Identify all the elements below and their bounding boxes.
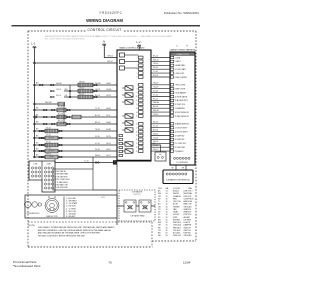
connector pin 1 <box>170 56 173 58</box>
svg-text:16-TN: 16-TN <box>106 136 111 138</box>
board pin B5 <box>119 150 123 152</box>
svg-text:10: 10 <box>136 96 138 98</box>
wire tie vertical x64 <box>63 103 65 124</box>
svg-text:8 REF LIGHT: 8 REF LIGHT <box>175 89 187 91</box>
svg-text:20: 20 <box>136 139 138 141</box>
svg-text:Publication No. 5995421891: Publication No. 5995421891 <box>164 11 200 15</box>
board pin J6 <box>139 76 144 79</box>
svg-text:20 DISP BD: 20 DISP BD <box>175 139 185 141</box>
connector pair mid row 1 <box>50 84 52 86</box>
wire board to connector GN-16 <box>151 84 170 86</box>
connector pair after row 3 <box>94 96 96 98</box>
divider dashed vertical right <box>151 222 153 247</box>
svg-text:5 YL FAN HIGH: 5 YL FAN HIGH <box>55 181 68 184</box>
wire bottom bus <box>93 189 117 191</box>
svg-text:RD-14: RD-14 <box>153 122 158 124</box>
svg-text:ICE/WATER DISPENSER BD: ICE/WATER DISPENSER BD <box>166 179 190 182</box>
board relay RL8 <box>125 149 133 153</box>
svg-text:P1: P1 <box>186 45 188 47</box>
connector pair mid row 3 <box>50 96 52 98</box>
svg-text:BLACK: BLACK <box>173 190 180 193</box>
svg-text:9 ICE MAKER: 9 ICE MAKER <box>175 91 187 94</box>
svg-text:GY-16: GY-16 <box>46 135 51 137</box>
board relay RL1 <box>125 86 133 90</box>
wire row y104 <box>34 103 64 105</box>
svg-text:COMPRESSOR: COMPRESSOR <box>27 213 41 215</box>
wire L-2 drop to board <box>138 46 140 50</box>
control circuit dashed border top <box>28 30 196 32</box>
svg-text:12: 12 <box>136 104 138 106</box>
svg-text:WH-BK: WH-BK <box>95 83 101 85</box>
board pin J19 <box>139 134 144 137</box>
wire row y157 <box>34 156 117 158</box>
wire board to connector WH-14 <box>151 60 170 62</box>
svg-text:RD-16: RD-16 <box>56 95 61 97</box>
svg-text:15 REF SENSOR: 15 REF SENSOR <box>175 116 190 118</box>
connector pair row 11 <box>39 156 41 158</box>
svg-text:WH-16: WH-16 <box>95 155 100 157</box>
component switch row 117 <box>72 115 81 119</box>
svg-text:DISCONNECT POWER BEFORE SERVIC: DISCONNECT POWER BEFORE SERVICING <box>96 36 138 38</box>
wire connector to display WH <box>185 165 187 170</box>
connector pair after row 2 <box>94 90 96 92</box>
svg-text:14 FRZ SENSOR: 14 FRZ SENSOR <box>175 112 190 114</box>
svg-text:NOTE:: NOTE: <box>29 225 36 227</box>
connector pair after row 9 <box>59 144 61 146</box>
connector plug L-1 <box>33 47 34 48</box>
terminal pin ice feed <box>113 161 117 165</box>
junction L-1 bus <box>34 62 36 64</box>
wire board to connector VT-16 <box>151 96 170 98</box>
junction L-1 row 4 <box>34 109 36 111</box>
connector plug N <box>103 44 104 45</box>
svg-text:16-GY: 16-GY <box>106 143 112 145</box>
ice maker motor M2 <box>139 200 151 212</box>
connector pin 23 <box>170 150 173 152</box>
svg-text:BK-16: BK-16 <box>153 106 158 108</box>
control circuit dashed border step <box>152 240 196 242</box>
svg-text:BU-16: BU-16 <box>58 114 63 116</box>
svg-text:CABINET WIRING HARNESS: CABINET WIRING HARNESS <box>170 48 196 51</box>
connector pair ice feed <box>95 162 97 164</box>
connector pair after row 8 <box>59 137 61 139</box>
board pin J23 <box>139 150 144 153</box>
svg-text:23 SHIELD: 23 SHIELD <box>175 151 185 153</box>
board pin J3 <box>139 64 144 67</box>
component ICE SW <box>45 129 58 133</box>
svg-text:RD-16: RD-16 <box>79 94 84 96</box>
svg-text:OR-16: OR-16 <box>79 88 84 90</box>
svg-text:6 DEF THERM: 6 DEF THERM <box>175 77 187 79</box>
board pin P8 <box>117 137 122 140</box>
board pin J18 <box>139 130 144 133</box>
svg-text:VT-16: VT-16 <box>95 143 100 145</box>
board pin B1 <box>119 134 123 136</box>
connector pin 4 <box>170 68 173 70</box>
relay K2 <box>120 60 125 64</box>
connector pair mid row 2 <box>50 90 52 92</box>
wire row y117 <box>34 116 117 118</box>
connector pin 17 <box>170 127 173 129</box>
connector pin 16 <box>170 123 173 125</box>
svg-text:WH-BK: WH-BK <box>56 83 62 85</box>
svg-text:21 COMP RLY: 21 COMP RLY <box>175 143 188 145</box>
svg-text:OR-16: OR-16 <box>56 89 61 91</box>
connector pair row 1 <box>39 84 41 86</box>
svg-text:11 AUGER MTR: 11 AUGER MTR <box>175 99 189 102</box>
svg-text:1 LINE: 1 LINE <box>175 57 181 59</box>
svg-text:10 WTR VALVE: 10 WTR VALVE <box>175 95 188 98</box>
wire board to connector BK-14 <box>151 57 170 59</box>
wire board to connector CN9 <box>151 145 161 152</box>
svg-text:WH-16: WH-16 <box>153 110 159 112</box>
svg-text:DISCONNECT POWER BEFORE SERVIC: DISCONNECT POWER BEFORE SERVICING UNIT. … <box>38 226 115 229</box>
board relay RL3 <box>125 100 133 104</box>
board pin P3 <box>117 96 122 99</box>
component LAMP <box>45 155 58 159</box>
wire line bus L-1 <box>34 62 117 64</box>
connector pin 2 <box>170 60 173 62</box>
connector pin 20 <box>170 138 173 140</box>
wire riser terminal board <box>54 159 56 163</box>
svg-text:MAIN CONTROL BOARD: MAIN CONTROL BOARD <box>119 47 144 50</box>
svg-text:3 - OR START: 3 - OR START <box>66 202 78 205</box>
wire board to connector TN-16 <box>151 88 170 90</box>
svg-text:4 RD COMP RUN: 4 RD COMP RUN <box>55 179 70 181</box>
wire drop x93 <box>92 157 94 169</box>
svg-text:14: 14 <box>136 112 138 114</box>
svg-text:13 DAMPER: 13 DAMPER <box>175 107 186 110</box>
motor legend divider <box>63 197 65 218</box>
board pin J4 <box>139 68 144 71</box>
svg-text:ALL COMPONENTS SHOWN DE-ENERGI: ALL COMPONENTS SHOWN DE-ENERGIZED <box>45 38 86 41</box>
svg-text:FAN HIGH: FAN HIGH <box>184 200 193 203</box>
component LT SW <box>78 95 93 99</box>
control circuit dashed border right <box>195 31 197 241</box>
board pin B3 <box>119 142 123 144</box>
connector pair mid row 11 <box>41 156 43 158</box>
board relay RL2 <box>125 93 133 97</box>
board pin J21 <box>139 142 144 145</box>
wire board to connector YL-16 <box>151 72 170 74</box>
component DEF TH <box>57 108 66 112</box>
board pin J10 <box>139 95 144 98</box>
svg-text:CLR: CLR <box>158 188 162 190</box>
svg-text:12 DISP SOL: 12 DISP SOL <box>175 104 186 106</box>
svg-text:GRN-YEL: GRN-YEL <box>173 235 181 237</box>
svg-text:CONTROL CIRCUIT: CONTROL CIRCUIT <box>87 28 121 32</box>
wire row y85 <box>34 84 117 86</box>
svg-text:YL-16: YL-16 <box>84 160 89 162</box>
connector pair mid row 5 <box>51 116 53 118</box>
connector pin 13 <box>170 107 173 109</box>
svg-text:11/04: 11/04 <box>183 261 191 265</box>
wire row y145 <box>34 144 117 146</box>
svg-text:PK-16: PK-16 <box>46 148 51 150</box>
svg-text:TO DISPENSER: TO DISPENSER <box>176 162 189 164</box>
board pin J9 <box>139 91 144 94</box>
svg-text:ICE MAKER HEAD: ICE MAKER HEAD <box>130 215 145 218</box>
svg-text:7 GN GROUND: 7 GN GROUND <box>55 187 68 189</box>
board pin J22 <box>139 146 144 149</box>
connector pair after row 11 <box>59 156 61 158</box>
svg-text:L-2: L-2 <box>137 40 141 44</box>
wire row y131 <box>34 130 117 132</box>
svg-text:VT-16: VT-16 <box>153 94 158 96</box>
control circuit dashed border bottom-left <box>28 246 153 248</box>
svg-text:22 GROUND: 22 GROUND <box>175 147 186 149</box>
connector header band <box>171 53 195 56</box>
board pin J2 <box>139 60 144 63</box>
connector bottom plug circles <box>174 157 176 159</box>
svg-text:BU-14: BU-14 <box>153 130 158 132</box>
svg-text:N: N <box>103 40 105 44</box>
wire board to connector BU-14 <box>151 131 170 133</box>
wire board to connector BU-16 <box>151 76 170 78</box>
indicator lamp row 117 <box>35 116 37 118</box>
svg-text:OR-14: OR-14 <box>153 114 158 116</box>
svg-text:GY-16: GY-16 <box>95 136 100 138</box>
svg-text:8 - BR AUX: 8 - BR AUX <box>66 215 76 218</box>
board pin J17 <box>139 126 144 129</box>
svg-text:RD-16: RD-16 <box>95 95 100 97</box>
svg-text:BK-14: BK-14 <box>153 55 158 57</box>
divider dashed bottom-left <box>28 221 152 223</box>
connector pin 8 <box>170 88 173 90</box>
connector pin 14 <box>170 111 173 113</box>
svg-text:*Non-Illustrated Parts: *Non-Illustrated Parts <box>13 264 41 268</box>
svg-text:YL-16: YL-16 <box>153 71 158 73</box>
connector pair after row 4 <box>67 109 69 111</box>
board pin J5 <box>139 72 144 75</box>
svg-text:19: 19 <box>136 135 138 137</box>
svg-text:17 DOOR SW F: 17 DOOR SW F <box>175 128 189 130</box>
wire board to connector YL-14 <box>151 127 170 129</box>
svg-text:16-VT: 16-VT <box>106 155 111 157</box>
component HTR <box>57 115 66 119</box>
wire N to board pin 1 <box>104 45 117 57</box>
connector pin 7 <box>170 84 173 86</box>
svg-text:AND INSULATION RATING AS ORIGI: AND INSULATION RATING AS ORIGINAL WIRE. … <box>38 232 100 235</box>
relay K3 <box>120 66 125 70</box>
wire board to connector GY-14 <box>151 142 170 144</box>
header rule <box>12 25 201 26</box>
wire L-1 vertical rail <box>33 48 35 157</box>
svg-text:FAN MOTOR: FAN MOTOR <box>46 215 58 218</box>
wire board to connector WH-BK <box>151 103 170 105</box>
connector pair mid row 7 <box>41 130 43 132</box>
junction L-1 row 8 <box>34 137 36 139</box>
wire ice maker feed <box>117 205 155 207</box>
svg-text:WH-14: WH-14 <box>153 59 159 61</box>
junction L-1 row 7 <box>34 130 36 132</box>
svg-text:ORANGE: ORANGE <box>173 195 182 198</box>
control circuit dashed border left <box>27 31 29 247</box>
svg-text:4 COND FAN: 4 COND FAN <box>175 68 186 71</box>
board pin J11 <box>139 99 144 102</box>
connector pair mid row 4 <box>51 109 53 111</box>
junction tie 91 <box>69 90 71 92</box>
svg-text:GY-16: GY-16 <box>153 91 158 93</box>
svg-text:2 NEUT: 2 NEUT <box>175 61 182 63</box>
svg-text:PK-16: PK-16 <box>95 149 100 151</box>
wire tie vertical x70 <box>69 85 71 97</box>
wire board to connector PK-16 <box>151 99 170 101</box>
connector pin 12 <box>170 103 173 105</box>
label CONTROL CIRCUIT <box>86 27 123 32</box>
board pin P7 <box>117 130 122 133</box>
wire board to connector TN-14 <box>151 138 170 140</box>
connector pair row 6 <box>43 123 45 125</box>
wire board to connector WH-16 <box>151 111 170 113</box>
board pin J12 <box>139 103 144 106</box>
junction L-1 row 1 <box>34 84 36 86</box>
terminal board line contacts <box>31 167 33 169</box>
svg-text:5 DEF HTR: 5 DEF HTR <box>175 73 185 75</box>
connector pair mid row 10 <box>41 150 43 152</box>
board pin J16 <box>139 122 144 125</box>
board pin J1 <box>139 56 144 59</box>
svg-text:2 WH NEUTRAL: 2 WH NEUTRAL <box>55 173 68 176</box>
svg-text:BR-16: BR-16 <box>58 121 63 123</box>
junction L-1 row 9 <box>34 144 36 146</box>
connector pin 19 <box>170 134 173 136</box>
svg-text:17: 17 <box>136 127 138 129</box>
board pin P11 <box>117 156 122 159</box>
board pin J14 <box>139 111 144 114</box>
component AUGER <box>45 149 58 153</box>
board pin J15 <box>139 115 144 118</box>
svg-text:SEE WIRE COLOR CODE CHART: SEE WIRE COLOR CODE CHART <box>141 35 173 38</box>
svg-text:16-OR: 16-OR <box>106 95 112 97</box>
svg-text:16-BR: 16-BR <box>106 129 112 131</box>
svg-text:21: 21 <box>136 143 138 145</box>
ice maker mold heater H1 <box>124 200 136 212</box>
connector pin 5 <box>170 72 173 74</box>
condenser fan motor M1 <box>45 199 59 213</box>
svg-text:PK-16: PK-16 <box>153 98 158 100</box>
component TIMER <box>57 122 66 126</box>
connector pair after row 7 <box>59 130 61 132</box>
svg-text:16-YL: 16-YL <box>106 115 111 117</box>
svg-text:16-BU: 16-BU <box>106 122 112 124</box>
wire board to connector GN-14 <box>151 135 170 137</box>
svg-text:CONNECTOR P1: CONNECTOR P1 <box>176 54 189 56</box>
svg-text:16: 16 <box>136 124 138 126</box>
board pin P10 <box>117 150 122 153</box>
connector pin 10 <box>170 95 173 97</box>
svg-text:70: 70 <box>108 261 112 265</box>
junction L-1 row y104 <box>34 103 36 105</box>
connector pair mid row 9 <box>41 144 43 146</box>
board pin B4 <box>119 146 123 148</box>
connector pin 6 <box>170 76 173 78</box>
connector pair after row 6 <box>67 123 69 125</box>
svg-text:FAN LOW: FAN LOW <box>184 203 192 206</box>
svg-text:GROUND: GROUND <box>184 235 193 237</box>
connector pair after row 1 <box>94 84 96 86</box>
svg-text:13: 13 <box>136 108 138 110</box>
connector pair row 9 <box>39 144 41 146</box>
wire drop x117 <box>116 164 118 225</box>
board pin P5 <box>117 116 122 119</box>
svg-text:AUGER: AUGER <box>184 216 191 219</box>
board pin B2 <box>119 138 123 140</box>
svg-text:19 DISP BD: 19 DISP BD <box>175 135 185 137</box>
connector pin 21 <box>170 142 173 144</box>
svg-text:WH-BK: WH-BK <box>79 82 85 84</box>
svg-text:DAMPER: DAMPER <box>184 224 192 227</box>
board pin J13 <box>139 107 144 110</box>
connector CN9 <box>155 152 166 161</box>
svg-text:J1: J1 <box>176 45 178 47</box>
connector pair mid row 8 <box>41 137 43 139</box>
svg-text:GN-16: GN-16 <box>153 83 158 85</box>
connector pin 15 <box>170 115 173 117</box>
component DISP <box>45 143 58 147</box>
terminal board load contacts <box>44 167 46 169</box>
connector pair row 7 <box>39 130 41 132</box>
svg-text:TN-16: TN-16 <box>46 128 51 130</box>
board relay RL6 <box>125 128 133 132</box>
svg-text:RD-16: RD-16 <box>153 67 158 69</box>
component jumper y104 <box>58 102 65 106</box>
connector pair after row 5 <box>67 116 69 118</box>
svg-text:22: 22 <box>136 147 138 149</box>
junction tie 97 <box>69 96 71 98</box>
board pin P2 <box>117 90 122 93</box>
board pin P1 <box>117 84 122 87</box>
wire board to connector GN-YL <box>151 150 170 152</box>
svg-text:GN-14: GN-14 <box>153 133 158 135</box>
svg-text:OR-16: OR-16 <box>95 89 100 91</box>
connector pin 11 <box>170 99 173 101</box>
connector pair after row 10 <box>59 150 61 152</box>
svg-text:GN-YL: GN-YL <box>153 149 159 151</box>
svg-text:BU-16: BU-16 <box>153 75 158 77</box>
connector pair mid row 6 <box>51 123 53 125</box>
svg-text:LOAD: LOAD <box>46 163 52 166</box>
svg-text:WH-14: WH-14 <box>108 55 114 57</box>
connector pin 9 <box>170 91 173 93</box>
svg-text:23: 23 <box>136 151 138 153</box>
svg-text:NEUTRAL: NEUTRAL <box>184 192 192 195</box>
wire row y91 <box>64 90 117 92</box>
svg-text:18: 18 <box>136 131 138 133</box>
board pin P6 <box>117 123 122 126</box>
PTC relay RY1 <box>38 203 41 206</box>
svg-text:COLOR: COLOR <box>173 188 180 190</box>
wire board to connector OR-14 <box>151 115 170 117</box>
svg-text:7 FRZ LIGHT: 7 FRZ LIGHT <box>175 85 187 87</box>
connector pair row 4 <box>43 109 45 111</box>
junction L-1 row 10 <box>34 150 36 152</box>
svg-text:FRS26ZRFC: FRS26ZRFC <box>100 11 123 15</box>
wire board to connector RD-14 <box>151 123 170 125</box>
connector pair row 8 <box>39 137 41 139</box>
svg-text:6 BU FAN LOW: 6 BU FAN LOW <box>55 184 68 187</box>
wire board to connector GY-16 <box>151 92 170 94</box>
wire board to connector BK-16 <box>151 107 170 109</box>
svg-text:15: 15 <box>136 116 138 118</box>
board pin J20 <box>139 138 144 141</box>
wire row y97 <box>64 96 117 98</box>
svg-text:L-1: L-1 <box>31 42 36 46</box>
board pin J7 <box>139 83 144 86</box>
svg-text:GROUND CONTINUITY AFTER SERVIC: GROUND CONTINUITY AFTER SERVICING THE UN… <box>38 234 86 237</box>
board relay RL5 <box>125 121 133 125</box>
svg-text:18 DOOR SW R: 18 DOOR SW R <box>175 131 189 133</box>
